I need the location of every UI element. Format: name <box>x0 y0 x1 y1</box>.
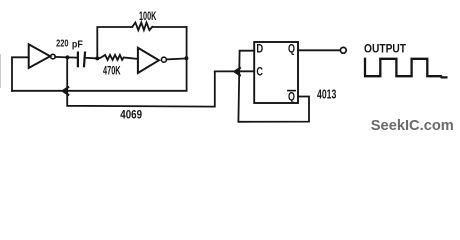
inverter U1a triangle <box>29 44 51 68</box>
svg-text:Q: Q <box>288 89 295 103</box>
svg-text:pF: pF <box>72 39 83 50</box>
inverter U1b triangle <box>138 48 159 73</box>
wire: top 100K loop left vertical <box>97 27 132 58</box>
capacitor C1 220pF left plate <box>77 53 79 67</box>
svg-text:100K: 100K <box>139 9 157 23</box>
junction dot B <box>95 56 99 60</box>
inverter U1a output bubble <box>51 54 56 59</box>
junction dot C <box>184 56 188 60</box>
Q-bar overline <box>288 90 295 92</box>
wire: D pin feedback from Q-bar <box>238 51 309 122</box>
resistor R1 100K zigzag <box>132 23 152 31</box>
svg-text:470K: 470K <box>103 64 121 78</box>
capacitor C1 220pF right plate <box>84 53 85 67</box>
wire: feedback line from U1b output junction to U1a input <box>12 27 187 91</box>
svg-text:4013: 4013 <box>317 87 336 102</box>
svg-text:Q: Q <box>288 42 295 56</box>
svg-text:D: D <box>256 42 263 56</box>
wire: capacitor to junction B <box>85 57 97 60</box>
svg-text:4069: 4069 <box>120 107 142 121</box>
wire: U1a output to junction A to capacitor <box>55 56 77 59</box>
inverter U1b output bubble <box>161 57 166 62</box>
wire: top 100K loop right segment <box>152 26 186 28</box>
crossover arrow at feedback line <box>63 87 69 95</box>
svg-text:SeekIC.com: SeekIC.com <box>371 117 454 134</box>
flip-flop U2 4013 box <box>254 42 298 103</box>
crossover arrow at clock line <box>235 68 241 75</box>
output square waveform <box>365 59 446 78</box>
wire: U1b output to junction C <box>167 58 187 59</box>
output terminal circle <box>340 47 346 53</box>
svg-text:OUTPUT: OUTPUT <box>364 43 406 55</box>
svg-text:220: 220 <box>56 38 69 49</box>
svg-text:C: C <box>256 65 263 79</box>
scan smudge left edge <box>0 54 1 88</box>
resistor R2 470K zigzag <box>100 55 138 60</box>
wire: junction A down to 4069 line, to clock vertical <box>67 60 215 107</box>
wire: clock into C pin of U2 <box>215 70 254 72</box>
junction dot A <box>65 55 69 59</box>
wire: Q output to terminal <box>298 49 340 51</box>
wire: inverter U1a input L from feedback <box>12 57 29 91</box>
